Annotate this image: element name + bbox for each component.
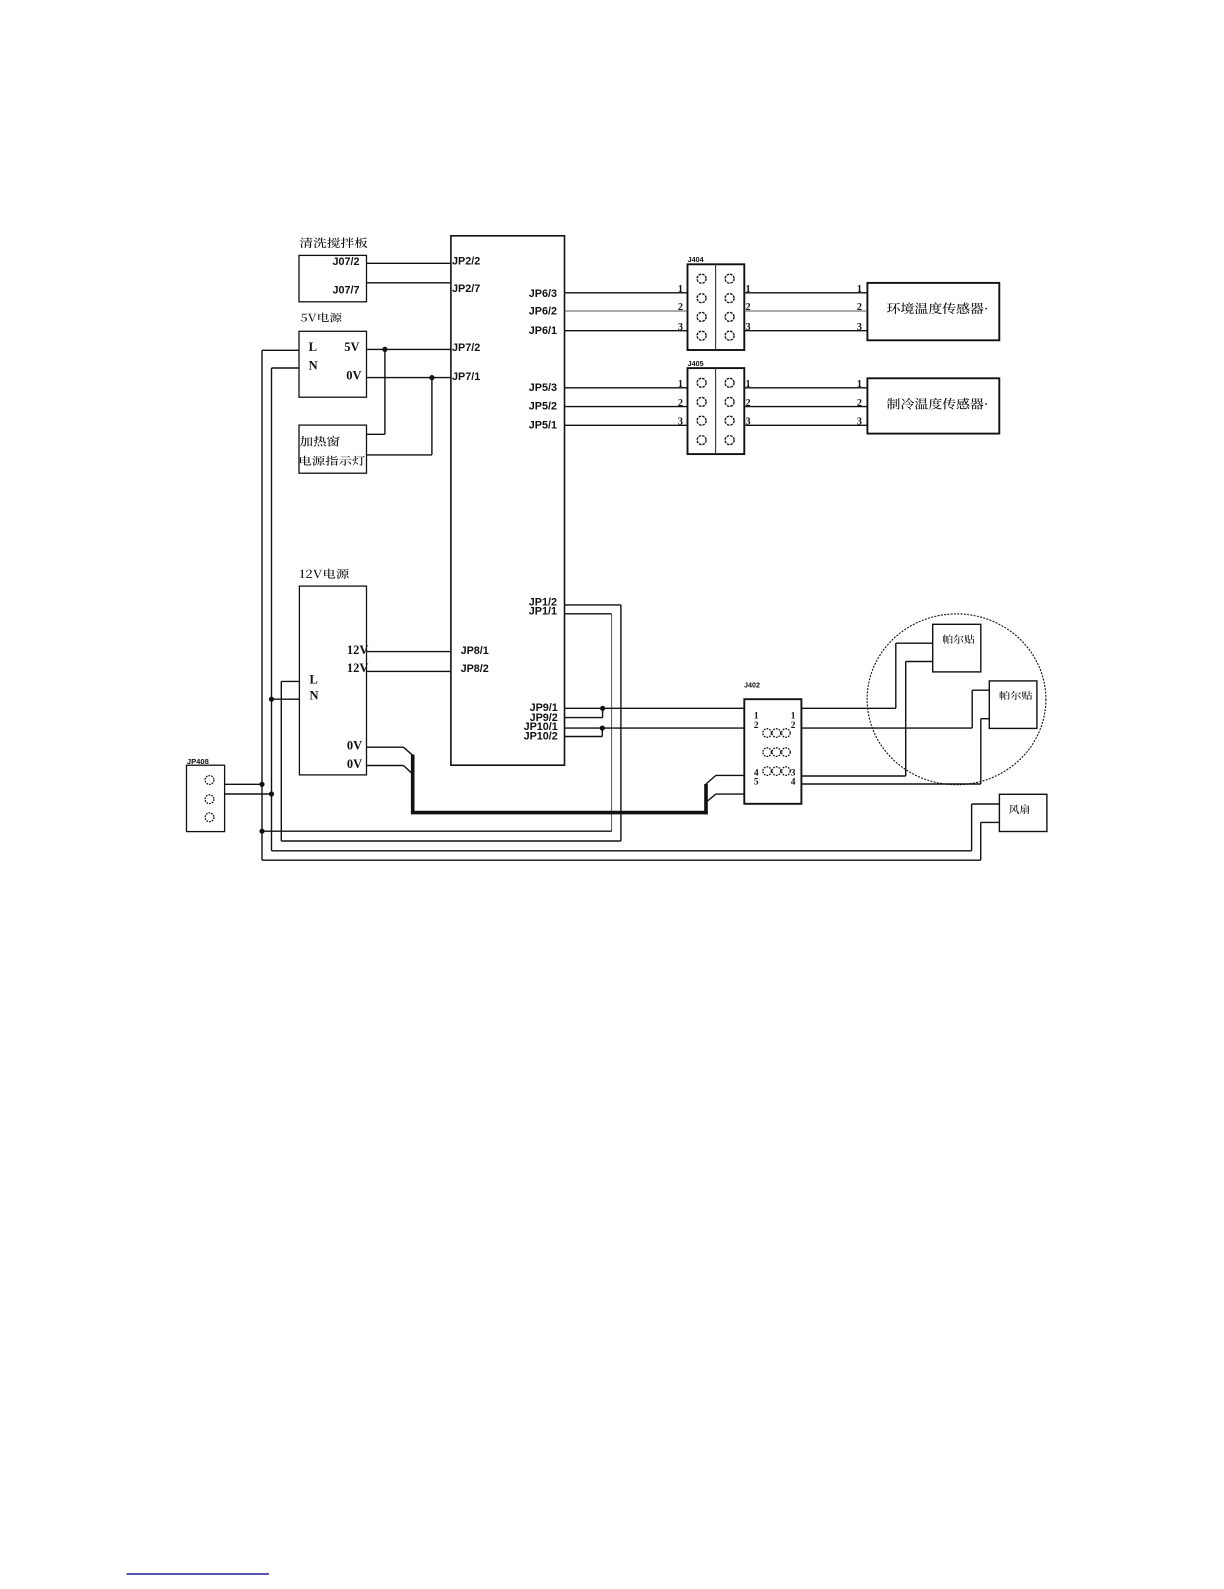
svg-text:1: 1 — [678, 379, 683, 390]
wire J07/2 to JP2/2 — [367, 262, 451, 264]
wire J402 R3 to peltier1 — [801, 775, 905, 777]
wire JP1/2 bottom bus — [281, 840, 621, 842]
J405 pin circle L2 — [697, 397, 706, 406]
svg-text:3: 3 — [678, 417, 683, 428]
peltier assembly circle — [867, 614, 1046, 785]
wire JP408 pin2 — [225, 793, 272, 795]
svg-text:J07/7: J07/7 — [332, 284, 359, 296]
wire 0V-a diagonal — [404, 747, 413, 755]
wire peltier2 pin2 — [981, 718, 990, 720]
J404 pin circle L4 — [697, 331, 706, 340]
junction dot JP10 tie — [600, 726, 605, 731]
svg-text:N: N — [310, 688, 319, 702]
connector JP408 body — [187, 765, 225, 831]
J402 pin circle r3c3 — [782, 767, 791, 776]
box fan 风扇 — [999, 794, 1047, 831]
svg-text:JP6/2: JP6/2 — [529, 305, 557, 317]
thick 0V bus vertical right — [704, 784, 708, 814]
svg-text:JP2/2: JP2/2 — [452, 255, 480, 267]
J402 pin circle r2c1 — [763, 748, 772, 757]
JP408 pin circle 3 — [205, 813, 214, 822]
wire J402 R2 riser — [971, 690, 973, 728]
JP408 pin circle 1 — [205, 776, 214, 785]
wire J402 pin5 left — [716, 793, 744, 795]
svg-text:L: L — [310, 673, 318, 687]
junction dot JP408 pin2 / N rail — [269, 791, 274, 796]
label 5V电源 (5V power) — [301, 313, 342, 323]
wire JP1/2 horizontal — [565, 604, 621, 606]
label 电源指示灯 — [300, 456, 365, 466]
wire J402 pin4 left — [716, 774, 744, 776]
wire JP408 pin1 — [225, 783, 262, 785]
label 帕尔贴 (1) — [943, 634, 975, 644]
wire fan pin1 — [972, 803, 1000, 805]
svg-text:1: 1 — [746, 379, 751, 390]
svg-text:2: 2 — [857, 302, 862, 313]
wire J402 R2 to peltier2 — [801, 727, 972, 729]
J404 pin circle R2 — [725, 294, 734, 303]
wire peltier2 pin1 — [972, 689, 989, 691]
junction dot JP9 tie — [600, 706, 605, 711]
wire J404 to sensor1 pin1 — [744, 292, 867, 294]
svg-text:12V: 12V — [347, 643, 369, 657]
wire JP6/3 to J404 — [565, 292, 688, 294]
svg-text:JP7/1: JP7/1 — [452, 371, 480, 383]
svg-text:J07/2: J07/2 — [332, 256, 359, 268]
J404 pin circle R1 — [725, 274, 734, 283]
wire heater pin1 vertical — [384, 349, 386, 434]
svg-text:3: 3 — [746, 417, 751, 428]
svg-text:2: 2 — [746, 302, 751, 313]
connector J405 body — [688, 368, 745, 454]
svg-text:JP8/1: JP8/1 — [461, 645, 489, 657]
wire 12V box L pin horizontal — [281, 680, 299, 682]
wire J404 to sensor1 pin2 (thin) — [744, 310, 867, 312]
svg-text:3: 3 — [678, 322, 683, 333]
wire JP9/2 stub — [565, 717, 603, 719]
wire 12V to JP8/2 — [367, 670, 451, 672]
svg-text:2: 2 — [678, 302, 683, 313]
wire JP9/2 riser — [602, 708, 604, 717]
label 风扇 — [1009, 804, 1029, 814]
thick 0V bus horizontal — [411, 811, 708, 815]
wire JP1/1 bottom bus — [262, 830, 612, 832]
J402 pin circle r1c3 — [782, 729, 791, 738]
svg-text:JP5/3: JP5/3 — [529, 382, 557, 394]
svg-text:1: 1 — [857, 284, 862, 295]
J405 pin circle R1 — [725, 378, 734, 387]
J405 pin circle L4 — [697, 436, 706, 445]
wire JP1/1 horizontal — [565, 613, 612, 615]
J405 pin circle R4 — [725, 436, 734, 445]
wire heater pin1 horizontal — [367, 433, 385, 435]
wire JP10/2 stub — [565, 736, 603, 738]
J402 pin circle r1c1 — [763, 729, 772, 738]
svg-text:4: 4 — [791, 778, 796, 788]
J405 pin circle R2 — [725, 397, 734, 406]
svg-text:JP7/2: JP7/2 — [452, 342, 480, 354]
svg-text:3: 3 — [746, 322, 751, 333]
svg-text:5V: 5V — [344, 340, 359, 354]
svg-text:2: 2 — [678, 398, 683, 409]
J402 pin circle r3c2 — [772, 767, 781, 776]
wire 12V L vertical drop — [280, 681, 282, 841]
wire heater pin2 vertical — [431, 378, 433, 455]
svg-text:2: 2 — [754, 721, 759, 731]
wire 0V bus diagonal to J402 pin4 — [706, 775, 716, 784]
J404 pin circle L2 — [697, 294, 706, 303]
svg-text:2: 2 — [746, 398, 751, 409]
wire 0V-a from 12V box — [367, 746, 404, 748]
wire peltier1 pin2 — [906, 661, 933, 663]
wire J402 pin5 diagonal — [707, 794, 716, 801]
label 清洗搅拌板 (wash/stir board) — [300, 237, 368, 248]
wire N rail bottom bus — [272, 850, 972, 852]
box ambient temperature sensor — [867, 283, 999, 340]
wire J402 R1 riser — [895, 643, 897, 708]
junction dot 5V/heater — [382, 347, 387, 352]
svg-text:N: N — [309, 359, 318, 373]
footer rule (navy) — [127, 1573, 270, 1575]
thick 0V bus vertical left — [411, 755, 415, 813]
J405 pin circle L1 — [697, 378, 706, 387]
J402 pin circle r2c3 — [782, 748, 791, 757]
wire L rail vertical — [261, 350, 263, 860]
svg-text:2: 2 — [791, 721, 796, 731]
svg-text:3: 3 — [857, 417, 862, 428]
box heater window power indicator lamp — [299, 425, 367, 473]
wire JP6/2 to J404 (thin) — [565, 310, 688, 312]
svg-text:3: 3 — [857, 322, 862, 333]
wire 5V to JP7/2 — [367, 348, 451, 350]
svg-text:0V: 0V — [347, 757, 362, 771]
wire N rail vertical — [271, 368, 273, 851]
label 制冷温度传感器 — [887, 398, 987, 410]
wire fan pin2 — [981, 821, 1000, 823]
J404 pin circle L3 — [697, 312, 706, 321]
box J07 wash/stir board — [299, 255, 367, 301]
wire J405 to sensor2 pin1 — [744, 387, 867, 389]
box 5V power supply — [299, 331, 367, 397]
wire JP5/1 to J405 — [565, 424, 688, 426]
box 12V power supply — [299, 586, 366, 775]
svg-text:JP5/2: JP5/2 — [529, 401, 557, 413]
svg-text:JP1/1: JP1/1 — [529, 606, 557, 618]
wire JP5/2 to J405 — [565, 406, 688, 408]
svg-text:1: 1 — [678, 284, 683, 295]
svg-text:2: 2 — [857, 398, 862, 409]
wire L rail top into 5V box — [262, 349, 299, 351]
wire heater pin2 horizontal — [367, 454, 432, 456]
connector J402 body — [744, 699, 801, 804]
J405 pin circle R3 — [725, 416, 734, 425]
connector J404 body — [688, 264, 745, 350]
J404 pin circle L1 — [697, 274, 706, 283]
svg-text:JP2/7: JP2/7 — [452, 283, 480, 295]
svg-text:0V: 0V — [346, 369, 361, 383]
wire 12V box N pin — [272, 698, 300, 700]
wire JP5/3 to J405 — [565, 387, 688, 389]
wire N rail riser to fan — [971, 804, 973, 851]
label 加热窗 — [300, 436, 340, 447]
wire L rail bottom bus — [262, 859, 981, 861]
wire 0V-b diagonal — [404, 766, 412, 774]
svg-text:1: 1 — [857, 379, 862, 390]
svg-text:5: 5 — [754, 778, 759, 788]
wire 0V to JP7/1 — [367, 377, 451, 379]
box peltier 2 — [989, 681, 1037, 729]
J402 pin circle r3c1 — [763, 767, 772, 776]
svg-text:JP6/1: JP6/1 — [529, 325, 557, 337]
svg-text:JP5/1: JP5/1 — [529, 420, 557, 432]
svg-text:12V: 12V — [347, 661, 369, 675]
wire 12V to JP8/1 — [367, 651, 451, 653]
wire JP1/1 vertical — [611, 614, 613, 831]
svg-text:L: L — [309, 340, 317, 354]
svg-text:JP8/2: JP8/2 — [461, 663, 489, 675]
wire L rail riser to fan — [980, 822, 982, 860]
J404 pin circle R4 — [725, 331, 734, 340]
svg-text:JP10/2: JP10/2 — [524, 731, 558, 743]
wire 0V-b from 12V box — [367, 765, 404, 767]
junction dot JP1/1 bus / L rail — [259, 829, 264, 834]
box peltier 1 — [933, 624, 981, 672]
junction dot JP408 pin1 / L rail — [259, 782, 264, 787]
J402 pin circle r2c2 — [772, 748, 781, 757]
wire JP9/1 to J402 pin1 — [565, 707, 745, 709]
wire JP10/2 riser — [601, 728, 603, 736]
wire peltier1 pin1 — [896, 642, 933, 644]
JP408 pin circle 2 — [205, 795, 214, 804]
svg-text:J404: J404 — [688, 255, 704, 264]
junction dot N rail / 12V N — [269, 697, 274, 702]
svg-text:1: 1 — [746, 284, 751, 295]
label 环境温度传感器 — [887, 302, 987, 314]
main controller box U1 — [451, 236, 565, 765]
wire J405 to sensor2 pin2 — [744, 406, 867, 408]
label 12V电源 (12V power) — [300, 569, 349, 579]
wire J402 R3 riser — [905, 662, 907, 777]
connector J404 divider — [715, 264, 717, 350]
svg-text:JP6/3: JP6/3 — [529, 288, 557, 300]
wire J402 R4 riser — [980, 719, 982, 784]
wire JP6/1 to J404 — [565, 330, 688, 332]
wire N rail top into 5V box — [272, 367, 300, 369]
wire J07/7 to JP2/7 — [367, 282, 451, 284]
wire JP1/2 vertical — [620, 605, 622, 841]
connector J405 divider — [715, 368, 717, 454]
junction dot 0V/heater — [429, 375, 434, 380]
wire J405 to sensor2 pin3 — [744, 424, 867, 426]
wire J402 R1 to peltier1 — [801, 707, 895, 709]
wire JP10/1 to J402 pin2 — [565, 727, 745, 729]
J402 pin circle r1c2 — [772, 729, 781, 738]
svg-text:J405: J405 — [688, 359, 704, 368]
svg-text:J402: J402 — [744, 681, 760, 690]
wire J402 R4 to peltier2 — [801, 783, 980, 785]
label 帕尔贴 (2) — [1000, 691, 1033, 700]
J404 pin circle R3 — [725, 312, 734, 321]
svg-text:0V: 0V — [347, 738, 362, 752]
box cooling temperature sensor — [867, 378, 999, 433]
wire J404 to sensor1 pin3 — [744, 330, 867, 332]
J405 pin circle L3 — [697, 416, 706, 425]
